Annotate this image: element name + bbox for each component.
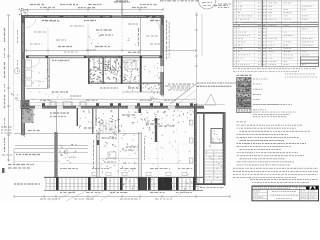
notes body — [237, 125, 310, 165]
legend swatch 3 — [237, 88, 263, 92]
text above table left — [160, 0, 199, 2]
door arc top left corner — [26, 18, 36, 28]
right dim lines — [148, 12, 202, 104]
toilet block fixtures — [89, 58, 160, 91]
stair block on left wall — [21, 100, 35, 123]
title block top row text — [254, 187, 298, 189]
outer wall left — [21, 15, 25, 137]
legend swatch 7 — [237, 108, 297, 116]
annotation text right of plan — [168, 83, 236, 88]
hall column grid lines — [158, 120, 193, 176]
top dimension line 2 — [23, 12, 163, 14]
title block centre text — [270, 192, 298, 199]
text above title block — [250, 179, 318, 182]
corridor text — [31, 86, 190, 104]
left room closets — [26, 58, 70, 86]
room labels below top wall — [42, 20, 160, 22]
dim line between hall wall and annex — [199, 115, 201, 183]
toilet block walls — [88, 56, 162, 92]
mid wall y106 — [22, 106, 204, 109]
bottom dim line — [14, 188, 230, 200]
top dimension text row 2 — [40, 7, 147, 9]
radiators along facade — [92, 172, 187, 175]
mid wall y56 — [26, 56, 162, 59]
left dim line 2 — [13, 20, 15, 130]
legend swatch 5 — [237, 98, 260, 102]
title block logo — [306, 186, 318, 190]
hall left partition — [77, 108, 78, 126]
notes full width lines — [233, 168, 318, 177]
dim text above facade — [60, 168, 192, 170]
hall right wall — [194, 104, 197, 187]
extra plan annotations — [30, 24, 160, 52]
bottom facade band — [44, 177, 203, 191]
lower-left texts — [2, 113, 69, 155]
table dark right boxes — [301, 57, 319, 67]
top dimension line — [23, 8, 163, 11]
mid dimension line y50 — [26, 47, 196, 53]
lower-left lines — [14, 134, 88, 164]
left margin text block y127 — [1, 127, 12, 133]
legend swatch 4 — [237, 93, 262, 97]
left small circle symbol — [11, 68, 20, 100]
sidewalk diagonals — [55, 191, 186, 201]
detail circle top right of plan — [199, 0, 231, 9]
schedule table grid — [233, 0, 319, 67]
annex interior box — [205, 129, 223, 183]
corridor line y133.5 extension — [56, 134, 141, 159]
diagonal line right mid — [170, 84, 196, 104]
lower-left fixtures — [59, 144, 77, 164]
outer wall right upper — [161, 15, 164, 97]
line above facade — [60, 163, 195, 165]
stair detail hall — [96, 119, 121, 139]
outside bottom-left text — [2, 165, 40, 185]
legend swatch 1 — [237, 78, 268, 83]
lower-left wall x56 — [55, 132, 58, 178]
ramp triangle right — [196, 94, 225, 105]
left vertical dim text — [5, 28, 18, 152]
title block right col text — [301, 187, 317, 200]
door arc top right corner — [148, 18, 160, 30]
schedule table text — [234, 3, 314, 65]
notes heading — [237, 121, 246, 123]
partition wall x48 — [26, 58, 49, 89]
core walls x97/x99 — [97, 133, 100, 178]
upper room center text — [46, 21, 137, 50]
left dim line — [7, 15, 10, 162]
legend swatch 2 — [237, 83, 263, 88]
pilasters on mid wall — [42, 102, 193, 106]
section flag at x122 — [116, 1, 128, 15]
partition x140 upper — [139, 18, 141, 56]
corridor line y100 — [24, 99, 196, 102]
right annex walls — [195, 112, 225, 186]
table footnotes — [233, 69, 316, 72]
legend right column text — [285, 74, 317, 77]
room labels hall band — [84, 115, 174, 147]
rooms band partitions — [92, 108, 157, 178]
hall interior sparse marks — [94, 134, 191, 175]
legend title — [237, 74, 252, 76]
partition line x56 upper — [56, 108, 58, 133]
outer wall top — [19, 8, 165, 18]
title block frame — [252, 186, 319, 201]
rooms band clutter — [79, 109, 196, 140]
legend swatch 6 — [237, 103, 293, 108]
faint partition lines upper room — [48, 18, 122, 56]
title block left col text — [253, 191, 263, 200]
top dimension text row 1 — [30, 2, 228, 6]
